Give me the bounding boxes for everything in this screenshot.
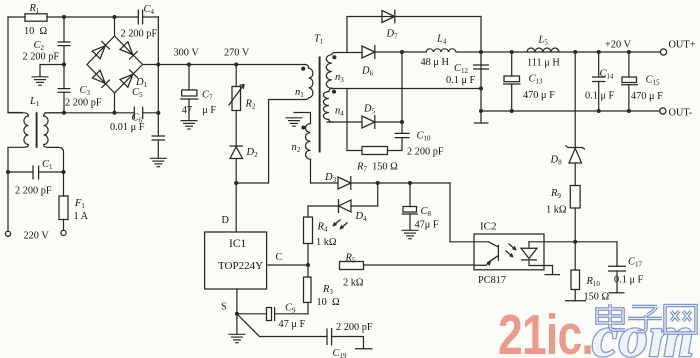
L1 right winding [44,113,64,172]
capacitor C9 electrolytic [237,313,308,315]
bridge diode lower-right (B to R) [120,70,138,88]
watermark dianziwang glyphs [597,304,696,333]
svg-text:IC1: IC1 [229,238,247,250]
capacitor C15 electrolytic [628,52,630,111]
capacitor C1 [8,171,64,173]
wire: left AC vertical (R1 left down to L1 top) [8,17,22,113]
wire: top AC line from R1 to C4 [8,16,138,18]
capacitor C14 [598,52,600,111]
resistor R9 [570,186,580,209]
zener D8 [566,146,586,150]
fuse F1 [63,172,65,230]
capacitor C3 [63,65,65,113]
bridge rectifier D1 diamond [87,36,143,93]
arrows near R4/D4 [333,220,341,227]
bridge diode upper-left (L to T) [92,41,110,59]
OUT- line [481,110,660,112]
capacitor C13 electrolytic [511,52,513,111]
resistor R1 [25,14,47,21]
LED of IC2 [529,242,553,274]
D pin [235,183,237,232]
vertical D6-node to D5-node [401,52,403,122]
bottom AC line y112.8 [45,112,158,114]
bridge diode lower-left (L to B) [92,70,110,88]
svg-text:10 Ω: 10 Ω [317,297,340,308]
capacitor C12 [473,65,489,69]
svg-text:1 A: 1 A [74,211,89,222]
node dot C2/C3/bridge junction [62,62,66,66]
L1 left winding [8,113,28,148]
node dot C2 top [62,15,66,19]
svg-text:1 kΩ: 1 kΩ [316,237,337,248]
svg-text:IC2: IC2 [480,221,497,233]
collector wire [450,183,489,242]
svg-text:D: D [222,215,230,226]
diode D4 [308,205,378,207]
resistor R4 [307,206,309,265]
feedback node [573,240,577,244]
primary winding n1 [304,65,313,100]
svg-text:C: C [276,252,283,263]
drain node [234,181,238,185]
svg-text:0.1 μ F: 0.1 μ F [446,75,476,86]
S pin [236,289,238,314]
capacitor C16 [327,328,332,346]
capacitor C5 [134,107,142,120]
svg-text:S: S [221,302,227,313]
control node [306,263,310,267]
zener D2 [230,145,244,147]
resistor R3 [307,265,309,314]
ground at S [236,314,238,334]
svg-text:10 Ω: 10 Ω [24,26,47,37]
svg-text:470 μ F: 470 μ F [631,91,663,102]
varistor R2 [235,65,237,147]
bridge diode upper-right (T to R) [120,41,138,59]
svg-text:0.1 μ F: 0.1 μ F [585,91,615,102]
svg-text:OUT+: OUT+ [669,40,696,51]
phototransistor [474,242,498,265]
left AC vertical lower [7,148,9,232]
220V input terminals [5,231,10,236]
capacitor C6 [157,113,159,158]
svg-text:2 200 pF: 2 200 pF [121,29,158,40]
DC+ vertical x158 [157,17,159,113]
secondary winding n3 [326,53,347,89]
svg-text:47 μ F: 47 μ F [182,105,217,116]
capacitor C8 electrolytic [409,183,411,230]
ground under C7 [181,121,198,129]
n4 bottom to D5 line [327,121,362,123]
svg-text:2 kΩ: 2 kΩ [343,278,364,289]
+20V output line [481,51,660,53]
T1 core [319,57,321,153]
tap return line y88.5 [331,88,481,90]
capacitor C2 [63,17,65,65]
capacitor C7 electrolytic [188,65,190,121]
svg-text:21ic.: 21ic. [498,303,593,358]
svg-text:47μ F: 47μ F [415,220,439,231]
svg-text:1 kΩ: 1 kΩ [546,205,567,216]
svg-text:R7 150 Ω: R7 150 Ω [356,162,398,174]
n3 top lead / D6 anode line [347,52,362,54]
ground under C6 [150,158,167,166]
svg-text:+20 V: +20 V [605,40,631,51]
OUT+ terminal [660,49,666,55]
svg-text:2 200 pF: 2 200 pF [407,147,444,158]
svg-text:48 μ H: 48 μ H [421,57,450,68]
S to C16 diagonal [237,314,327,337]
OUT- terminal [660,108,666,114]
diode D7 [382,11,395,23]
inductor L4 [426,49,481,52]
D7 top line [347,17,481,53]
capacitor C10 [388,122,403,151]
svg-text:111 μ H: 111 μ H [527,58,560,69]
svg-text:2 200 pF: 2 200 pF [15,186,52,197]
resistor R5 [340,262,364,270]
svg-text:PC817: PC817 [478,275,506,286]
svg-text:150 Ω: 150 Ω [584,292,610,303]
output node vertical x481 [480,17,482,124]
snubber vertical x347 [346,89,348,151]
svg-text:300 V: 300 V [174,48,200,59]
bias winding n2 [294,113,311,184]
diode D5 [362,116,375,128]
secondary winding n4 [323,88,332,122]
svg-text:TOP224Y: TOP224Y [218,260,263,272]
resistor R10 [574,242,576,301]
svg-text:47 μ F: 47 μ F [279,319,306,330]
svg-text:2 200 pF: 2 200 pF [23,52,60,63]
vertical from +20V [574,52,576,242]
svg-text:0.1 μ F: 0.1 μ F [614,275,644,286]
svg-text:270 V: 270 V [224,48,250,59]
svg-text:0.01 μ F: 0.01 μ F [110,122,145,133]
svg-text:470 μ F: 470 μ F [523,90,555,101]
L1 core [36,112,38,148]
C pin [268,264,308,266]
300V rail [143,64,306,66]
diode D6 [362,46,375,58]
bridge stem bottom [114,93,116,113]
svg-text:2 200 pF: 2 200 pF [65,98,102,109]
LED anode line to C17 [529,241,617,243]
svg-text:OUT-: OUT- [669,108,693,119]
capacitor C17 [616,242,618,293]
light arrows IC2 [509,244,517,251]
bridge stem top [114,17,116,36]
capacitor C4 top [138,10,142,25]
ground at C2/C3 junction [40,65,64,77]
resistor R7 [362,147,388,155]
inductor L5 [527,48,559,52]
diode D3 [311,182,339,184]
wire drain node to n1 bottom [236,100,305,184]
svg-text:220 V: 220 V [24,231,50,242]
svg-text:2 200 pF: 2 200 pF [336,322,373,333]
